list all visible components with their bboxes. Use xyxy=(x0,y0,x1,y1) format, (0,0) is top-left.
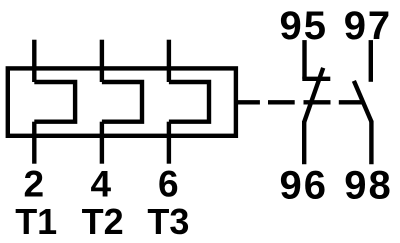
wire terminal 98 (NO contact bottom lead) xyxy=(369,121,373,165)
svg-text:6: 6 xyxy=(158,164,179,205)
svg-text:97: 97 xyxy=(344,4,393,48)
wire terminal 95 (NC contact top lead) xyxy=(302,40,306,79)
wire terminal 97 (NO contact top lead) xyxy=(369,40,373,82)
wire terminal 2 (bottom lead, pole 1) xyxy=(32,122,36,164)
svg-text:96: 96 xyxy=(280,163,329,207)
actuator stub from block xyxy=(236,100,260,104)
NC contact moving blade xyxy=(304,68,323,122)
svg-text:2: 2 xyxy=(24,164,45,205)
wire terminal 6 (bottom lead, pole 3) xyxy=(167,122,171,164)
thermal element 3 xyxy=(169,82,209,122)
svg-text:95: 95 xyxy=(280,4,329,48)
svg-text:T2: T2 xyxy=(82,201,124,242)
NC contact fixed bar xyxy=(302,77,330,81)
wire terminal 96 (NC contact bottom lead) xyxy=(302,121,306,164)
wire terminal 4 (bottom lead, pole 2) xyxy=(100,122,104,164)
actuator linkage dash 1 xyxy=(268,100,295,104)
svg-text:98: 98 xyxy=(344,163,393,207)
svg-text:4: 4 xyxy=(91,164,112,205)
thermal element 1 xyxy=(34,82,75,122)
wire L2 (top lead, pole 2) xyxy=(100,40,104,82)
overload block frame xyxy=(8,68,236,135)
svg-text:T1: T1 xyxy=(15,201,57,242)
svg-text:T3: T3 xyxy=(147,201,189,242)
wire L1 (top lead, pole 1) xyxy=(32,40,36,82)
thermal element 2 xyxy=(102,82,142,122)
NO contact moving blade xyxy=(354,81,372,122)
actuator linkage dash 2 xyxy=(304,100,331,104)
actuator linkage dash 3 xyxy=(339,100,363,104)
wire L3 (top lead, pole 3) xyxy=(167,40,171,82)
